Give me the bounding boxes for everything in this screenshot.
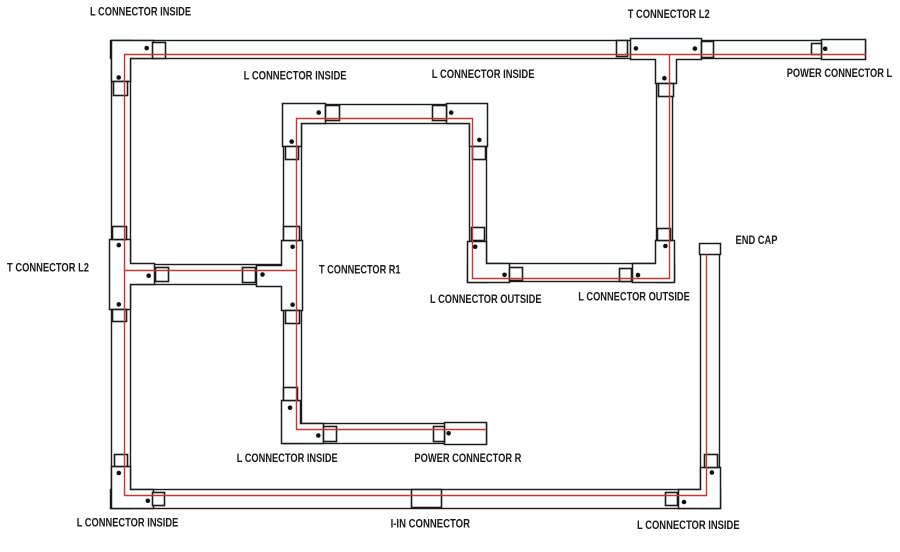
node dot T-left lower	[117, 302, 122, 307]
node dot power connector R	[446, 431, 451, 436]
joint box T-top left	[617, 41, 628, 57]
svg-text:L CONNECTOR OUTSIDE: L CONNECTOR OUTSIDE	[430, 292, 542, 306]
joint box T-R1 arm	[243, 268, 256, 283]
node dot inner bottom-left v	[288, 405, 293, 410]
joint box inner top-right vertical	[473, 147, 486, 160]
node dot inner top-left h	[316, 110, 321, 115]
node dot L-outside-right v	[663, 244, 668, 249]
joint box T-top stem	[659, 84, 674, 97]
joint box T-R1 above	[284, 227, 300, 241]
joint box bottom-left corner horizontal	[153, 493, 165, 506]
joint box T-top right	[702, 42, 714, 58]
joint box inner top-left horizontal	[326, 106, 340, 121]
svg-text:T CONNECTOR L2: T CONNECTOR L2	[628, 7, 710, 21]
wire T-stem vertical track	[657, 60, 673, 283]
joint box top-left corner horizontal	[153, 43, 166, 59]
power connector L block	[822, 40, 866, 60]
svg-text:I-IN CONNECTOR: I-IN CONNECTOR	[391, 517, 471, 531]
node dot bottom-right corner v	[710, 470, 715, 475]
node dot inner top-right v	[477, 138, 482, 143]
wire inner top track	[284, 105, 487, 124]
wire top track	[111, 41, 866, 59]
joint box power connector L	[812, 44, 822, 55]
L connector inside, inner top-left corner	[283, 104, 326, 147]
L connector inside, bottom-left corner	[112, 467, 154, 509]
node dot T-top right	[693, 46, 698, 51]
svg-text:L CONNECTOR INSIDE: L CONNECTOR INSIDE	[637, 518, 740, 532]
wire bottom track	[111, 490, 721, 509]
T connector L2, top	[631, 39, 702, 84]
joint box T-left below	[113, 310, 127, 322]
node dot T-top left	[634, 46, 639, 51]
joint box T-left arm	[156, 268, 169, 282]
wire inner U bottom track	[468, 264, 675, 282]
node dot T-R1 lower	[290, 302, 295, 307]
joint box bottom-right corner horizontal	[666, 493, 678, 506]
joint box end-cap track lower	[705, 455, 718, 468]
joint box L-outside-left horizontal	[510, 268, 523, 281]
node dot T-left arm	[146, 273, 151, 278]
node dot bottom-left corner v	[117, 471, 122, 476]
svg-text:L CONNECTOR INSIDE: L CONNECTOR INSIDE	[244, 69, 347, 83]
svg-text:L CONNECTOR OUTSIDE: L CONNECTOR OUTSIDE	[578, 290, 690, 304]
svg-text:T CONNECTOR R1: T CONNECTOR R1	[319, 263, 401, 277]
node dot L-outside-left h	[502, 273, 507, 278]
L connector outside, right	[633, 241, 675, 283]
svg-text:POWER CONNECTOR R: POWER CONNECTOR R	[414, 451, 521, 465]
node dot bottom-left corner h	[146, 499, 151, 504]
joint box L-outside-left vertical	[472, 228, 485, 241]
joint box T-R1 below	[286, 311, 300, 324]
T connector L2, left side	[110, 240, 155, 310]
joint box L-outside-right vertical	[658, 229, 671, 241]
svg-text:T CONNECTOR L2: T CONNECTOR L2	[7, 261, 89, 275]
joint box top-left corner vertical	[114, 82, 128, 96]
svg-text:L CONNECTOR INSIDE: L CONNECTOR INSIDE	[432, 67, 535, 81]
L connector inside, bottom-right corner	[679, 468, 721, 509]
node dot power connector L	[823, 47, 828, 52]
L connector inside, inner top-right corner	[447, 104, 488, 147]
node dot top-left corner h	[144, 46, 149, 51]
wire left track	[112, 41, 131, 509]
svg-text:POWER CONNECTOR L: POWER CONNECTOR L	[787, 66, 893, 80]
power connector R block	[445, 423, 487, 445]
node dot T-R1 arm	[260, 272, 265, 277]
joint box inner bottom-left horizontal	[324, 427, 337, 442]
L connector inside, inner bottom-left corner	[282, 401, 324, 444]
wire inner left track	[284, 105, 302, 444]
joint box power connector R	[434, 427, 445, 442]
wire inner right track	[470, 105, 487, 283]
svg-text:END CAP: END CAP	[736, 233, 778, 247]
wire red middle track	[125, 270, 297, 272]
wire middle track	[130, 265, 284, 285]
joint box I-IN connector	[412, 490, 442, 508]
svg-text:L CONNECTOR INSIDE: L CONNECTOR INSIDE	[237, 451, 338, 465]
L connector inside, main top-left corner	[112, 41, 154, 82]
node dot inner top-left v	[289, 139, 294, 144]
wire red main loop	[125, 55, 867, 496]
joint box inner top-right horizontal	[433, 106, 447, 121]
joint box T-left above	[113, 227, 127, 240]
svg-text:L CONNECTOR INSIDE: L CONNECTOR INSIDE	[90, 4, 191, 18]
wire inner lower horizontal track	[284, 424, 487, 444]
joint box bottom-left corner vertical	[115, 455, 128, 467]
node dot T-left upper	[117, 243, 122, 248]
joint box inner bottom-left vertical	[284, 388, 298, 401]
wire end-cap vertical track	[701, 249, 720, 509]
node dot L-outside-right h	[636, 273, 641, 278]
node dot top-left corner v	[116, 75, 121, 80]
wire red T-stem / inner loop	[297, 55, 670, 430]
node dot T-R1 upper	[290, 245, 295, 250]
L connector outside, left	[468, 242, 510, 283]
node dot bottom-right corner h	[682, 500, 687, 505]
joint box inner top-left vertical	[286, 147, 299, 160]
node dot inner bottom-left h	[316, 433, 321, 438]
node dot T-top stem	[662, 76, 667, 81]
node dot L-outside-left v	[473, 245, 478, 250]
T connector R1	[257, 241, 303, 311]
joint box L-outside-right horizontal	[620, 269, 632, 282]
svg-text:L CONNECTOR INSIDE: L CONNECTOR INSIDE	[77, 515, 179, 529]
node dot inner top-right h	[449, 110, 454, 115]
end cap block	[700, 244, 721, 255]
